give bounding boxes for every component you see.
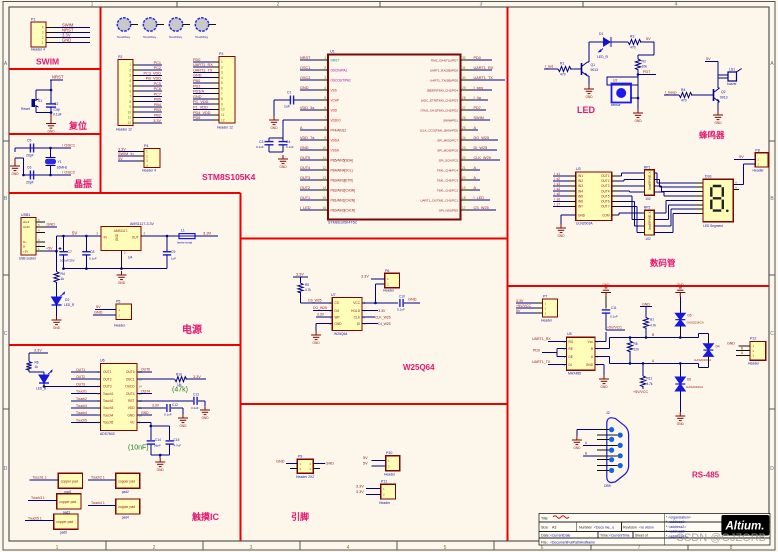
svg-text:IN3: IN3	[578, 184, 583, 188]
svg-text:+5V: +5V	[23, 249, 28, 253]
net label +5V/VCC (C11)	[605, 314, 607, 331]
capacitor C13 (RST)	[137, 400, 193, 402]
svg-text:Q1: Q1	[591, 63, 596, 67]
svg-text:3: 3	[129, 74, 131, 78]
wire junction down to photocell	[637, 75, 639, 99]
wire RE/DE tie + net PD0	[557, 348, 567, 350]
svg-text:U1: U1	[330, 50, 335, 54]
svg-text:5V: 5V	[72, 231, 77, 236]
svg-text:PC1: PC1	[154, 61, 161, 65]
touch pad pad5	[54, 514, 78, 535]
capacitor C4	[279, 138, 294, 152]
junction dots reset	[50, 89, 53, 92]
ground (VDD caps)	[278, 155, 288, 164]
wire U4 OUT	[141, 235, 179, 237]
svg-text:A: A	[735, 186, 737, 190]
svg-text:GND: GND	[586, 363, 594, 367]
pushbutton S1	[21, 96, 42, 111]
svg-text:1uF: 1uF	[284, 105, 290, 109]
resistor R1	[558, 62, 571, 77]
svg-text:11: 11	[323, 156, 327, 160]
net label I_led	[544, 68, 558, 70]
wire crystal top rail	[15, 147, 61, 149]
wire D1 to R3	[611, 41, 628, 43]
U1 left pin 3 (OSCOUT/PA2)	[317, 79, 328, 81]
svg-text:0.1uF: 0.1uF	[53, 113, 62, 117]
U6 left pin 4 (Touch1)	[71, 393, 101, 395]
svg-text:VSS: VSS	[331, 88, 337, 92]
svg-text:CS_W25: CS_W25	[474, 206, 489, 210]
svg-text:+5V/VCC: +5V/VCC	[607, 326, 622, 330]
svg-text:5V: 5V	[96, 305, 101, 309]
svg-text:26: 26	[462, 116, 466, 120]
capacitor C6	[26, 166, 34, 185]
wire segment a to display	[654, 172, 657, 174]
wire/net Touch1	[30, 479, 59, 481]
svg-text:D: D	[4, 466, 8, 472]
svg-text:OUT4: OUT4	[601, 189, 610, 193]
J2 pin 3	[609, 448, 614, 453]
svg-text:7: 7	[324, 116, 326, 120]
svg-text:Touch5 1: Touch5 1	[28, 516, 42, 520]
svg-text:GND: GND	[602, 283, 610, 287]
svg-text:OUT1: OUT1	[601, 174, 610, 178]
U3 pin IN7	[568, 205, 576, 207]
svg-text:3: 3	[480, 2, 483, 8]
net label PC1	[140, 64, 162, 66]
svg-text:8: 8	[730, 545, 733, 551]
svg-text:ADS7843: ADS7843	[100, 432, 115, 436]
ground (Q2)	[713, 111, 723, 120]
wire/net DI_W25	[472, 149, 497, 151]
svg-text:VDD: VDD	[128, 406, 135, 410]
display right pin stubs	[733, 189, 739, 191]
svg-text:29: 29	[462, 86, 466, 90]
svg-text:IN4: IN4	[578, 189, 583, 193]
svg-text:GND: GND	[408, 298, 417, 302]
net label PC2	[140, 69, 162, 71]
svg-text:56pF: 56pF	[154, 444, 161, 448]
resistor network RP2	[644, 206, 654, 241]
svg-text:PB1/AIN1[CH2N]: PB1/AIN1[CH2N]	[331, 198, 356, 202]
svg-text:6: 6	[129, 89, 131, 93]
wire to LED D1	[589, 41, 603, 43]
wire/net A	[472, 179, 480, 181]
net label UART1_TX (U5 DI)	[548, 364, 567, 366]
svg-text:[TIM1_CH1]TIM3_CH2/PD2: [TIM1_CH1]TIM3_CH2/PD2	[421, 108, 459, 112]
svg-text:OUT6: OUT6	[141, 368, 150, 372]
J2 pin 9	[618, 463, 623, 468]
svg-text:1: 1	[324, 56, 326, 60]
svg-text:CS: CS	[335, 301, 339, 305]
U6 left pin 7 (Touch4)	[71, 414, 101, 416]
svg-text:PC7: PC7	[154, 92, 161, 96]
svg-text:OUT1: OUT1	[300, 196, 310, 200]
svg-text:SPI_SCK/PC5: SPI_SCK/PC5	[439, 158, 459, 162]
svg-text:20pF: 20pF	[26, 181, 34, 185]
U1 right pin 21 (TIM1_CH4/PC4)	[461, 169, 473, 171]
wire/net OSC2	[300, 79, 317, 81]
7-segment display DS1	[703, 174, 733, 228]
svg-text:W25Q64: W25Q64	[403, 363, 435, 372]
svg-text:OUT1: OUT1	[103, 370, 112, 374]
svg-text:C2: C2	[54, 102, 58, 106]
wire U3 OUT2	[612, 180, 619, 182]
svg-text:L1: L1	[181, 229, 185, 233]
svg-text:shell: shell	[23, 220, 30, 224]
svg-text:6: 6	[221, 87, 223, 91]
svg-text:Touch3: Touch3	[76, 404, 87, 408]
net label DI_W25	[362, 323, 378, 325]
svg-text:STM8S105K4T6C: STM8S105K4T6C	[328, 221, 358, 225]
svg-text:Vcc: Vcc	[588, 340, 594, 344]
ground rail (power)	[64, 268, 168, 270]
svg-text:USB1: USB1	[21, 213, 30, 217]
svg-text:IN2: IN2	[578, 179, 583, 183]
svg-text:OUT2: OUT2	[300, 186, 310, 190]
svg-text:CLK_W25: CLK_W25	[375, 315, 391, 319]
svg-text:Touch2: Touch2	[76, 397, 87, 401]
svg-text:PC3_VDD: PC3_VDD	[143, 71, 161, 75]
svg-text:<Docu me...e: <Docu me...e	[594, 526, 614, 530]
svg-text:UART1_RX: UART1_RX	[532, 337, 551, 341]
U6 left pin 5 (Touch2)	[71, 400, 101, 402]
svg-text:Number: Number	[579, 526, 593, 530]
svg-text:LED_R: LED_R	[64, 303, 75, 307]
net label PC7	[140, 95, 162, 97]
svg-text:晶振: 晶振	[74, 178, 93, 189]
wire D3 to OUT3 row	[43, 383, 45, 386]
svg-text:1: 1	[221, 60, 223, 64]
svg-text:GND: GND	[53, 326, 61, 330]
ground (power LED)	[52, 316, 62, 325]
wire bus B line	[595, 348, 609, 350]
svg-text:19: 19	[462, 186, 466, 190]
U1 left pin 7 (VDDIO)	[317, 119, 328, 121]
U1 right pin 25 ([CLK_CCO]TIM1_BKIN/PD0)	[461, 129, 473, 131]
wire P1 pin 4	[46, 26, 56, 28]
svg-text:4.7k: 4.7k	[650, 324, 656, 328]
capacitor C11	[605, 297, 607, 309]
svg-text:U7: U7	[331, 293, 336, 297]
net label 5V	[118, 160, 137, 162]
svg-text:GND: GND	[270, 126, 278, 130]
U1 left pin 8 (PF4/AIN12)	[317, 129, 328, 131]
partition line: crystal/power split	[9, 192, 241, 194]
svg-text:GND: GND	[193, 95, 202, 99]
wire button loop	[36, 89, 51, 91]
svg-text:3: 3	[96, 232, 98, 236]
svg-text:D4: D4	[716, 345, 720, 349]
U1 left pin 11 (PB5/AIN5[SDA])	[317, 159, 328, 161]
touch key button SW4	[195, 18, 216, 39]
svg-text:7: 7	[129, 95, 131, 99]
svg-text:UART1_RX: UART1_RX	[193, 63, 213, 67]
svg-text:TIM1_CH3/PC3: TIM1_CH3/PC3	[437, 178, 459, 182]
svg-text:I_s5: I_s5	[554, 192, 560, 196]
svg-text:[BEEP]TIM3_CH1/PD4: [BEEP]TIM3_CH1/PD4	[427, 88, 458, 92]
svg-text:5V: 5V	[706, 57, 711, 61]
svg-text:OUT4: OUT4	[141, 389, 150, 393]
svg-text:2: 2	[324, 66, 326, 70]
svg-text:USB socket: USB socket	[19, 257, 36, 261]
J2 pin 1	[609, 427, 614, 432]
J2 pin 5	[609, 468, 614, 473]
capacitor C9	[163, 236, 177, 269]
net label PD0	[193, 61, 212, 63]
ground (Q1)	[584, 85, 594, 94]
touch pad pad4	[116, 499, 140, 520]
svg-text:0.1uF: 0.1uF	[89, 257, 97, 261]
svg-text:C12: C12	[172, 403, 178, 407]
partition line: SWIM bottom	[9, 68, 101, 70]
svg-text:4: 4	[42, 26, 44, 30]
partition line: W25Q64 bottom	[241, 403, 508, 405]
svg-text:Header 12: Header 12	[116, 128, 132, 132]
wire/net A	[472, 129, 478, 131]
svg-text:AMS1117-: AMS1117-	[114, 229, 129, 233]
svg-text:3.3V: 3.3V	[34, 349, 42, 353]
svg-text:[CLK_CCO]TIM1_BKIN/PD0: [CLK_CCO]TIM1_BKIN/PD0	[420, 128, 458, 132]
net label NRST (reset)	[50, 79, 63, 81]
U1 right pin 30 (UART1_TX(SB)/PD5)	[461, 79, 473, 81]
svg-text:电源: 电源	[182, 323, 202, 336]
svg-text:SWIM: SWIM	[474, 116, 484, 120]
svg-text:<re vision: <re vision	[639, 526, 654, 530]
svg-text:OUT6: OUT6	[126, 370, 135, 374]
U1 left pin 13 (PB3/AIN3[ETR])	[317, 179, 328, 181]
wire/net UART1_TX	[472, 79, 505, 81]
svg-text:OSC1: OSC1	[126, 377, 135, 381]
net label PD2	[193, 87, 212, 89]
svg-text:14: 14	[322, 186, 326, 190]
svg-text:OUT4: OUT4	[300, 166, 310, 170]
svg-text:4.7nF: 4.7nF	[174, 444, 182, 448]
diode D1 LED	[597, 32, 611, 59]
svg-text:/ OSC2: / OSC2	[62, 170, 76, 175]
resistor R5	[300, 277, 302, 283]
U1 right pin 22 (SPI_SCK/PC5)	[461, 159, 473, 161]
svg-text:GND: GND	[642, 303, 650, 307]
svg-text:S1: S1	[38, 99, 42, 103]
svg-text:P8: P8	[755, 148, 759, 152]
svg-text:Header: Header	[383, 289, 395, 293]
svg-text:Touch2 1: Touch2 1	[91, 476, 105, 480]
svg-text:PB3: PB3	[154, 108, 161, 112]
resistor R6	[28, 353, 30, 362]
svg-text:1uF: 1uF	[171, 257, 176, 261]
svg-text:4: 4	[675, 2, 678, 8]
svg-text:U2: U2	[613, 79, 617, 83]
resistor network RP1	[644, 166, 654, 202]
svg-text:8: 8	[221, 97, 223, 101]
wire/net PD0	[472, 59, 492, 61]
svg-text:GND: GND	[179, 424, 187, 428]
svg-text:11: 11	[128, 116, 132, 120]
svg-text:D: D	[770, 466, 774, 472]
U1 left pin 16 (PB0/AIN0[CH1N])	[317, 209, 328, 211]
diode D4 TVS	[694, 344, 720, 362]
svg-text:VSSA: VSSA	[331, 148, 340, 152]
wire display common to P8	[733, 184, 743, 186]
net label OSC1	[61, 147, 71, 149]
svg-text:DI_W25: DI_W25	[378, 322, 390, 326]
inductor L1 ferrite bead	[177, 229, 195, 245]
connector USB1	[19, 213, 36, 261]
svg-text:Sheet of: Sheet of	[635, 534, 648, 538]
net label UART1_RX	[193, 66, 212, 68]
svg-text:R4: R4	[681, 88, 685, 92]
driver U3 ULN2003A	[576, 167, 612, 226]
svg-text:1: 1	[124, 251, 126, 255]
wire R4 to base	[691, 94, 714, 96]
net label PB5	[140, 101, 162, 103]
svg-text:Touch4 1: Touch4 1	[91, 501, 105, 505]
net label GND (USB)	[45, 226, 57, 228]
svg-text:12: 12	[322, 166, 326, 170]
svg-text:Revision: Revision	[623, 526, 637, 530]
touch key button SW1	[117, 18, 138, 39]
svg-text:470: 470	[681, 99, 687, 103]
svg-text:3.3V: 3.3V	[153, 119, 161, 123]
svg-text:R6: R6	[35, 361, 39, 365]
net label OUT4 row	[137, 393, 152, 395]
U1 right pin 20 (TIM1_CH3/PC3)	[461, 179, 473, 181]
wire/net OUT4	[300, 169, 317, 171]
svg-text:4.7k: 4.7k	[305, 288, 311, 292]
net label GND	[193, 98, 212, 100]
svg-text:MAX485: MAX485	[568, 372, 581, 376]
touch pad pad2	[116, 473, 140, 494]
svg-text:DI_W25: DI_W25	[474, 146, 488, 150]
wire/net A	[300, 129, 317, 131]
U6 left pin 3 (OUT3)	[71, 385, 101, 387]
capacitor C1 (VCAP)	[274, 91, 317, 117]
svg-text:I_LED: I_LED	[300, 206, 311, 210]
svg-text:Header: Header	[384, 473, 396, 477]
svg-text:GND: GND	[634, 119, 642, 123]
svg-text:TIM1_CH4(TLI)/PD7: TIM1_CH4(TLI)/PD7	[430, 58, 458, 62]
wire/net CS_W25	[472, 209, 496, 211]
svg-text:Touch2: Touch2	[103, 399, 114, 403]
U1 left pin 10 (VSSA)	[317, 149, 328, 151]
capacitor C5	[26, 139, 34, 158]
svg-text:1: 1	[56, 545, 59, 551]
capacitor C7 electrolytic	[59, 236, 75, 269]
U3 pin IN2	[568, 180, 576, 182]
diode D5 TVS	[675, 313, 703, 326]
svg-text:GND: GND	[11, 172, 19, 176]
svg-text:GND: GND	[157, 468, 165, 472]
svg-text:RP1: RP1	[644, 166, 651, 170]
net label 3.3V (P11 pin2)	[366, 493, 381, 495]
svg-text:GND: GND	[47, 130, 55, 134]
svg-text:0.1uF: 0.1uF	[397, 308, 405, 312]
wire Q2 emitter to gnd	[718, 101, 720, 103]
wire caps to gnd	[150, 445, 152, 456]
svg-text:RP2: RP2	[644, 206, 651, 210]
svg-text:5V: 5V	[646, 37, 651, 41]
svg-text:+5V: +5V	[46, 247, 53, 251]
wire P12 pin2	[736, 350, 750, 352]
resistor R3	[628, 35, 641, 50]
svg-text:PD7: PD7	[643, 70, 650, 74]
svg-text:Header 2X2: Header 2X2	[296, 475, 314, 479]
svg-text:P10: P10	[386, 451, 392, 455]
svg-text:GAS2016CA: GAS2016CA	[694, 358, 711, 362]
svg-text:I_s6: I_s6	[554, 197, 560, 201]
svg-text:A3: A3	[552, 526, 556, 530]
svg-text:DB9: DB9	[604, 484, 611, 488]
svg-text:LED_R: LED_R	[597, 55, 608, 59]
svg-text:buzzer: buzzer	[727, 82, 738, 86]
svg-text:OUT3: OUT3	[601, 184, 610, 188]
svg-text:B: B	[585, 451, 587, 455]
frame row ticks left/right	[3, 140, 9, 142]
net label PC6	[140, 90, 162, 92]
svg-text:C3: C3	[259, 140, 263, 144]
svg-text:W25Q64: W25Q64	[334, 332, 347, 336]
svg-text:12: 12	[221, 118, 225, 122]
svg-text:4: 4	[324, 86, 326, 90]
svg-text:PD4_VDD: PD4_VDD	[193, 111, 211, 115]
svg-text:DS1: DS1	[705, 174, 712, 178]
net label PC_VDD	[193, 103, 212, 105]
svg-text:TouchKey: TouchKey	[143, 35, 157, 39]
svg-text:SPI_MOSI/PC6: SPI_MOSI/PC6	[437, 148, 458, 152]
wire R4 to D2	[56, 282, 58, 297]
svg-text:RST: RST	[128, 399, 134, 403]
svg-text:GND: GND	[201, 416, 209, 420]
ground (C11)	[601, 288, 611, 297]
svg-text:VDD_3a: VDD_3a	[300, 106, 315, 110]
svg-text:P6: P6	[385, 269, 389, 273]
svg-text:Header: Header	[753, 169, 765, 173]
resistor R11	[642, 363, 644, 376]
svg-text:C13: C13	[193, 393, 199, 397]
svg-text:TIM1_CH4/PC4: TIM1_CH4/PC4	[437, 168, 459, 172]
svg-text:R7: R7	[650, 318, 654, 322]
svg-text:4: 4	[129, 79, 131, 83]
svg-text:9: 9	[221, 102, 223, 106]
ground (C13)	[200, 406, 210, 415]
svg-text:GND: GND	[677, 283, 685, 287]
net label 3.3V (power out)	[195, 235, 218, 237]
svg-text:DI: DI	[357, 322, 360, 326]
svg-text:C6: C6	[27, 166, 31, 170]
svg-text:3.3V: 3.3V	[118, 148, 126, 152]
svg-text:4: 4	[347, 545, 350, 551]
svg-text:UART1_RX: UART1_RX	[474, 66, 494, 70]
U1 right pin 24 (SPI_MISO/PC7)	[461, 139, 473, 141]
svg-text:10: 10	[127, 110, 131, 114]
svg-text:Touch3 1: Touch3 1	[31, 496, 45, 500]
capacitor C10	[397, 295, 405, 312]
net label 3.3V (W25)	[293, 276, 308, 278]
capacitor C14	[147, 438, 161, 448]
svg-text:C1: C1	[287, 91, 291, 95]
J2 pin 7	[618, 443, 623, 448]
svg-text:18: 18	[462, 196, 466, 200]
resistor R10 with 3.3V	[137, 378, 175, 380]
svg-text:D+: D+	[23, 240, 27, 244]
wire/net OUT5	[300, 159, 317, 161]
svg-text:NRST: NRST	[300, 56, 311, 60]
svg-text:+5V/VCC: +5V/VCC	[633, 390, 648, 394]
svg-text:28: 28	[462, 96, 466, 100]
svg-text:Cap: Cap	[54, 108, 60, 112]
svg-text:U3: U3	[576, 167, 581, 171]
